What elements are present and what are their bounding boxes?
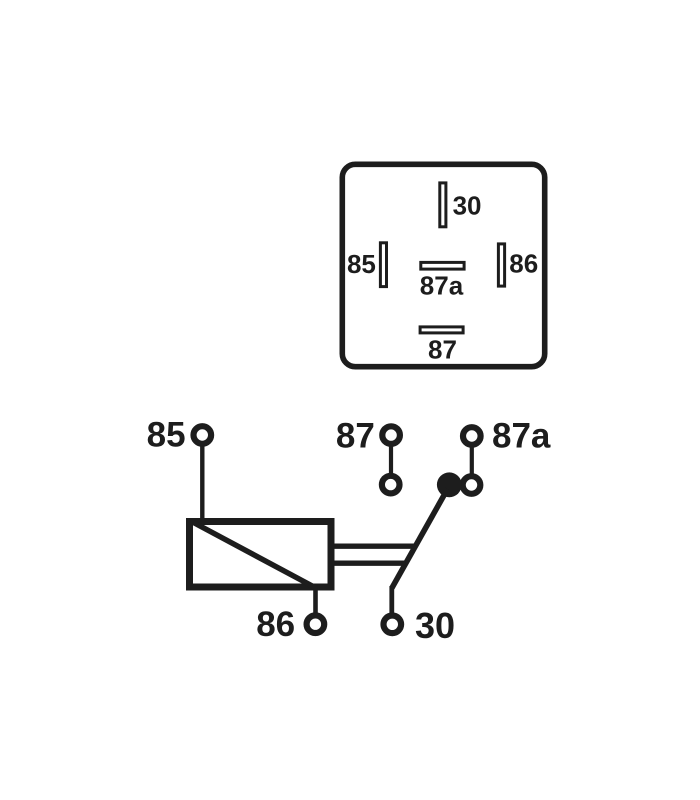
coil K1 [190, 522, 332, 588]
contact 87a [463, 476, 481, 494]
svg-text:87: 87 [336, 416, 375, 455]
coil diagonal [194, 523, 317, 589]
pin 85 slot [380, 243, 386, 287]
relay socket outline [342, 164, 544, 366]
pin 86 slot [498, 244, 504, 286]
wire coil to switch lower [332, 561, 405, 566]
svg-text:85: 85 [347, 249, 376, 279]
svg-text:30: 30 [453, 190, 482, 220]
wire 85 to coil [200, 447, 204, 523]
contact 87 [382, 476, 400, 494]
terminal 30 [384, 616, 402, 634]
terminal 85 [194, 426, 212, 444]
wire coil to switch upper [332, 544, 415, 549]
svg-text:85: 85 [147, 416, 186, 455]
wire 87a stub [470, 447, 474, 475]
switch arm wire [392, 489, 448, 588]
svg-text:87: 87 [428, 334, 457, 364]
svg-text:30: 30 [415, 605, 455, 646]
wire 87 stub [389, 446, 393, 475]
pin 87a slot [421, 262, 464, 269]
pin 30 slot [440, 183, 446, 227]
wire arm to 30 [389, 586, 394, 613]
svg-text:87a: 87a [492, 417, 551, 456]
svg-text:86: 86 [509, 249, 538, 279]
junction node common [437, 472, 462, 497]
svg-text:86: 86 [256, 605, 295, 644]
svg-text:87a: 87a [420, 271, 464, 301]
pin 87 slot [420, 327, 463, 333]
wire coil to 86 [313, 588, 318, 614]
terminal 87a [463, 427, 481, 445]
terminal 87 [382, 426, 400, 444]
terminal 86 [307, 615, 325, 633]
